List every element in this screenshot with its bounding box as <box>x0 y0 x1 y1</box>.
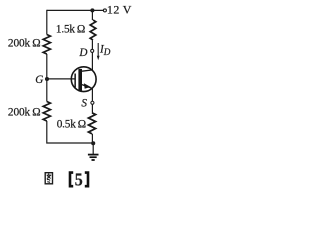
value label 12 V <box>107 2 132 16</box>
junction dot at top of right rail <box>90 8 94 12</box>
svg-text:12 V: 12 V <box>107 2 132 16</box>
wire drain segment <box>91 40 93 49</box>
current arrow ID <box>97 43 100 60</box>
wire from transistor to node S <box>91 88 93 101</box>
svg-text:0.5k Ω: 0.5k Ω <box>57 118 86 130</box>
wire left rail middle segment <box>46 54 48 102</box>
node G junction dot <box>45 77 49 81</box>
caption hanzi 图 (figure) drawn glyph <box>45 173 52 184</box>
resistor R2 200kΩ (lower left) <box>43 102 50 122</box>
svg-text:5: 5 <box>75 169 83 189</box>
node D open circle <box>91 49 94 52</box>
junction dot at ground node <box>91 141 95 145</box>
value label 1.5kΩ <box>56 24 85 36</box>
transistor channel bar (thick) <box>78 69 82 91</box>
current label I_D <box>99 44 111 57</box>
caption number 5 <box>75 169 83 189</box>
transistor Q1 (FET) envelope circle <box>71 67 96 92</box>
transistor source lead inside envelope with arrow <box>82 83 93 89</box>
wire from R4 to ground junction <box>91 134 93 143</box>
value label 200kΩ (R1) <box>8 38 41 50</box>
wire from node S to resistor R4 <box>91 104 93 112</box>
node label G <box>35 74 43 86</box>
wire gate lead from node G to transistor <box>47 78 75 80</box>
transistor gate bar (thin) <box>74 74 76 88</box>
svg-text:S: S <box>81 97 87 109</box>
ground symbol <box>88 143 99 160</box>
svg-text:200k Ω: 200k Ω <box>8 107 41 119</box>
resistor R4 0.5kΩ (source) <box>88 113 95 134</box>
wire left rail upper segment <box>46 10 48 35</box>
svg-text:D: D <box>103 47 111 57</box>
supply terminal +12V open circle <box>103 9 106 12</box>
node S open circle <box>91 101 94 104</box>
svg-text:D: D <box>78 47 87 59</box>
resistor R1 200kΩ (upper left) <box>43 35 50 55</box>
value label 200kΩ (R2) <box>8 107 41 119</box>
node label D <box>78 47 87 59</box>
transistor drain lead inside envelope <box>82 70 93 71</box>
svg-text:200k Ω: 200k Ω <box>8 38 41 50</box>
caption bracket 【 <box>70 173 73 187</box>
resistor R3 1.5kΩ (drain) <box>90 20 96 40</box>
wire from node D to transistor <box>91 53 93 71</box>
wire top horizontal bus <box>47 9 103 11</box>
svg-text:G: G <box>35 74 43 86</box>
svg-text:1.5k Ω: 1.5k Ω <box>56 24 85 36</box>
wire right rail below top dot <box>91 10 93 20</box>
wire left rail lower segment <box>47 121 93 143</box>
caption bracket 】 <box>85 173 88 187</box>
node label S <box>81 97 87 109</box>
value label 0.5kΩ <box>57 118 86 130</box>
